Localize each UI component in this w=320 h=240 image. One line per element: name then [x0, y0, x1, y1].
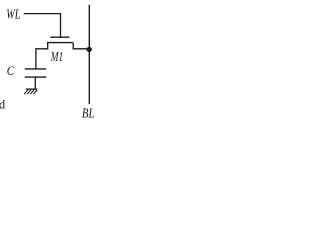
svg-text:d: d — [0, 98, 6, 112]
wire gate stub vertical — [60, 13, 62, 37]
svg-text:C: C — [7, 64, 15, 78]
transistor M1 channel bar — [47, 42, 73, 44]
capacitor C bottom plate — [25, 76, 47, 78]
wire drain lead to BL — [73, 43, 89, 49]
wire WL horizontal — [24, 13, 61, 15]
transistor M1 gate bar — [50, 36, 69, 38]
capacitor C top plate — [25, 68, 47, 70]
ground bar — [26, 88, 37, 90]
ground hatch lines — [24, 90, 37, 95]
junction dot — [87, 47, 92, 52]
background — [0, 0, 100, 122]
svg-text:M1: M1 — [50, 49, 63, 64]
wire BL vertical — [88, 5, 90, 104]
wire capacitor to ground — [34, 77, 36, 89]
wire source lead to capacitor — [36, 43, 48, 69]
svg-text:WL: WL — [6, 7, 20, 22]
svg-text:BL: BL — [82, 106, 95, 121]
